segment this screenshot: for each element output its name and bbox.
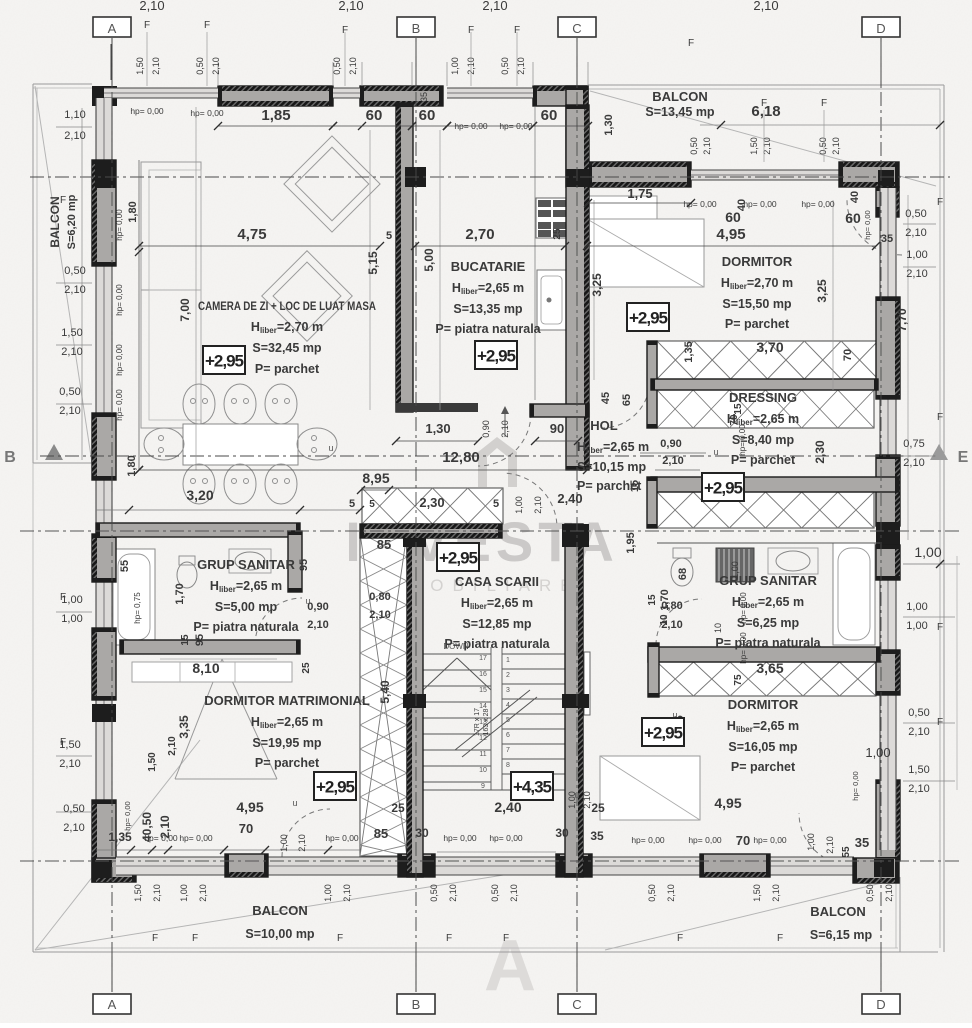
svg-text:1,50: 1,50 [908, 764, 929, 776]
svg-text:85: 85 [377, 537, 391, 552]
svg-text:40: 40 [849, 191, 861, 203]
axis horizontal y861 [20, 860, 960, 862]
svg-text:0,50: 0,50 [689, 137, 699, 155]
svg-text:2,10: 2,10 [906, 268, 927, 280]
axis D vertical [880, 42, 882, 992]
svg-text:2,10: 2,10 [307, 619, 328, 631]
kitchen stove [536, 198, 568, 238]
svg-text:35: 35 [855, 835, 869, 850]
column kitchen right [566, 169, 589, 187]
svg-text:2,70: 2,70 [465, 226, 494, 243]
svg-text:4,75: 4,75 [237, 226, 266, 243]
svg-text:1,80: 1,80 [126, 455, 138, 476]
dim row mid 1.30 90 [396, 440, 478, 442]
wall balcony corner right [839, 162, 899, 187]
dim lines above bottom wall [96, 849, 360, 851]
elev box dormitor matrimonial [314, 772, 356, 800]
svg-text:5,40: 5,40 [378, 680, 392, 704]
svg-text:0,50: 0,50 [429, 884, 439, 902]
window top-left band [104, 88, 218, 98]
svg-text:30: 30 [415, 826, 429, 840]
svg-text:2,10: 2,10 [533, 496, 543, 514]
svg-text:hp= 0,00: hp= 0,00 [631, 835, 665, 845]
svg-text:hp= 0,00: hp= 0,00 [115, 209, 124, 241]
svg-text:3,70: 3,70 [756, 339, 783, 355]
svg-text:0,50: 0,50 [490, 884, 500, 902]
svg-text:3: 3 [506, 687, 510, 694]
toilet grup sanitar right [671, 558, 693, 586]
svg-text:2,10: 2,10 [908, 726, 929, 738]
bottom wall chunk right [700, 854, 770, 877]
svg-text:S=8,40 mp: S=8,40 mp [732, 433, 795, 447]
left wall chunk 3 [92, 534, 116, 582]
grid marker C bottom [576, 952, 578, 992]
washbasin grup sanitar right [768, 548, 818, 574]
washbasin grup sanitar left [229, 549, 271, 573]
svg-text:60: 60 [845, 210, 861, 226]
right margin leader lines [903, 223, 936, 225]
svg-text:2,10: 2,10 [825, 836, 835, 854]
svg-text:S=12,85 mp: S=12,85 mp [462, 617, 532, 631]
svg-text:2: 2 [506, 672, 510, 679]
dim vertical line left interior [138, 160, 140, 470]
svg-text:1,95: 1,95 [625, 532, 637, 553]
svg-text:2,10: 2,10 [702, 137, 712, 155]
columns staircase left [403, 524, 426, 547]
staircase arrow [423, 658, 457, 690]
svg-text:0,50: 0,50 [332, 57, 342, 75]
svg-text:2,10: 2,10 [448, 884, 458, 902]
toilet grup sanitar left [177, 562, 197, 588]
wall stub hol left of kitchen wall [530, 404, 589, 417]
wall bath bottom [120, 640, 300, 654]
column right wall [876, 526, 900, 545]
left wall chunk 4 bath [92, 628, 116, 700]
svg-text:95: 95 [194, 634, 206, 646]
svg-text:10: 10 [479, 767, 487, 774]
svg-text:60: 60 [419, 107, 436, 124]
svg-text:hp= 0,00: hp= 0,00 [325, 833, 359, 843]
svg-text:2,10: 2,10 [211, 57, 221, 75]
svg-text:+4,35: +4,35 [513, 778, 552, 797]
svg-text:70: 70 [736, 833, 750, 848]
dim row 12.80 [139, 469, 587, 471]
svg-text:hp= 0,00: hp= 0,00 [130, 106, 164, 116]
svg-text:F: F [821, 98, 827, 109]
bathtub grup sanitar left [113, 549, 155, 645]
armchair diamond 2 [262, 251, 353, 342]
svg-text:P= parchet: P= parchet [255, 362, 320, 376]
closet dressing bottom [657, 390, 874, 428]
svg-text:hp= 0,00: hp= 0,00 [801, 199, 835, 209]
svg-text:CASA SCARII: CASA SCARII [455, 574, 539, 589]
right wall chunk 4 [876, 650, 900, 695]
svg-text:BUCATARIE: BUCATARIE [451, 259, 526, 274]
svg-text:hp= 0,00: hp= 0,00 [851, 771, 860, 800]
svg-text:11: 11 [479, 751, 486, 758]
svg-text:90: 90 [550, 421, 564, 436]
svg-text:+2,95: +2,95 [629, 309, 668, 328]
dining table [183, 424, 298, 465]
bottom wall chunk C [556, 854, 592, 877]
svg-text:1,50: 1,50 [752, 884, 762, 902]
svg-text:2,40: 2,40 [557, 491, 582, 506]
door arc dormitor matrimonial [282, 809, 330, 857]
svg-text:0,80: 0,80 [369, 591, 390, 603]
section triangle right [930, 444, 948, 460]
svg-text:+2,95: +2,95 [316, 778, 355, 797]
corner bottom right black [876, 780, 900, 861]
svg-text:2,10: 2,10 [342, 884, 352, 902]
wall living-bath separation [96, 523, 300, 537]
svg-text:2,10: 2,10 [198, 884, 208, 902]
svg-text:2,10: 2,10 [771, 884, 781, 902]
svg-text:F: F [337, 933, 343, 944]
grid marker D bottom [880, 952, 882, 992]
staircase break line [455, 690, 530, 750]
svg-text:4,95: 4,95 [236, 799, 263, 815]
svg-text:D: D [876, 21, 885, 36]
door arc balcony top right [847, 200, 902, 255]
svg-text:A: A [108, 997, 117, 1012]
svg-text:15: 15 [647, 594, 658, 606]
svg-text:B: B [4, 449, 16, 466]
svg-text:hp= 0,00: hp= 0,00 [115, 284, 124, 316]
svg-text:5: 5 [369, 499, 375, 510]
svg-text:P= parchet: P= parchet [255, 756, 320, 770]
svg-text:F: F [937, 622, 943, 633]
dim vertical line 7.00 living [195, 107, 197, 470]
svg-text:8: 8 [506, 762, 510, 769]
svg-text:3,25: 3,25 [590, 273, 604, 297]
extension lines above top wall [217, 62, 219, 86]
svg-text:P= parchet: P= parchet [577, 479, 642, 493]
columns staircase right [562, 524, 589, 547]
svg-text:u: u [328, 443, 333, 453]
svg-text:35: 35 [881, 233, 893, 245]
svg-text:2,10: 2,10 [762, 137, 772, 155]
wall right outer [880, 188, 896, 850]
svg-text:hp= 0,00: hp= 0,00 [443, 833, 477, 843]
svg-text:B: B [412, 21, 421, 36]
svg-text:DORMITOR: DORMITOR [722, 254, 793, 269]
svg-text:hp= 0,00: hp= 0,00 [743, 199, 777, 209]
svg-text:0,90: 0,90 [660, 438, 681, 450]
svg-text:0,50: 0,50 [647, 884, 657, 902]
wall bath2 left vertical [648, 643, 659, 697]
svg-text:0,50: 0,50 [63, 803, 84, 815]
svg-text:60: 60 [541, 107, 558, 124]
svg-text:hp= 0,00: hp= 0,00 [489, 833, 523, 843]
svg-text:hp= 0,00: hp= 0,00 [179, 833, 213, 843]
svg-text:2,10: 2,10 [905, 227, 926, 239]
svg-text:2,10: 2,10 [63, 822, 84, 834]
svg-text:hp= 0,00: hp= 0,00 [454, 121, 488, 131]
svg-text:S=5,00 mp: S=5,00 mp [215, 600, 278, 614]
svg-text:+2,95: +2,95 [704, 479, 743, 498]
svg-text:F: F [204, 20, 210, 31]
wall dressing mid [651, 379, 878, 390]
svg-text:1,00: 1,00 [906, 620, 927, 632]
svg-text:2,10: 2,10 [884, 884, 894, 902]
svg-text:17R x 17: 17R x 17 [474, 708, 481, 736]
wall bath2 bottom [648, 647, 880, 662]
svg-text:0,90: 0,90 [481, 420, 491, 438]
dresser dormitor matrimonial [132, 662, 292, 682]
svg-text:8,10: 8,10 [192, 660, 219, 676]
svg-text:hp= 0,00: hp= 0,00 [190, 108, 224, 118]
svg-text:70: 70 [842, 349, 854, 361]
axis B vertical [415, 42, 417, 992]
window balcony top right [691, 170, 840, 180]
svg-text:5: 5 [349, 498, 355, 510]
svg-text:1,70: 1,70 [174, 583, 186, 604]
bottom wall chunk B [398, 854, 435, 877]
axis horizontal y531 [20, 530, 960, 532]
svg-text:BALCON: BALCON [810, 904, 866, 919]
balcony bottom outline [32, 463, 34, 860]
elev box casa scarii [437, 543, 479, 571]
svg-text:F: F [60, 737, 66, 748]
svg-text:1,30: 1,30 [425, 421, 450, 436]
svg-text:2,10: 2,10 [753, 0, 778, 13]
svg-text:4: 4 [506, 702, 510, 709]
bed dormitor top right [587, 219, 704, 287]
svg-text:P= piatra naturala: P= piatra naturala [435, 322, 541, 336]
svg-text:2,10: 2,10 [338, 0, 363, 13]
right wall chunk 3 [876, 545, 900, 580]
svg-text:1,10: 1,10 [64, 109, 85, 121]
bed dormitor matrimonial triangle [175, 659, 222, 779]
svg-text:D: D [876, 997, 885, 1012]
sofa living [141, 162, 201, 290]
svg-text:1,35: 1,35 [683, 341, 695, 362]
svg-text:F: F [777, 933, 783, 944]
svg-text:+2,95: +2,95 [205, 352, 244, 371]
svg-text:2,10: 2,10 [139, 0, 164, 13]
balcony left diagonal [35, 86, 92, 463]
roof outline diagonal top right balcony [590, 91, 936, 186]
svg-text:F: F [152, 933, 158, 944]
svg-text:75: 75 [733, 674, 744, 686]
door arc grup sanitar left [255, 598, 302, 645]
svg-text:u: u [305, 596, 310, 606]
svg-text:16: 16 [479, 671, 487, 678]
window top band 3 [447, 88, 533, 98]
closet bedroom right 3.65 [657, 662, 876, 696]
svg-text:60: 60 [366, 107, 383, 124]
axis A vertical [111, 42, 113, 992]
svg-text:1,50: 1,50 [147, 752, 158, 772]
svg-text:BALCON: BALCON [652, 89, 708, 104]
right wall chunk 2 [876, 455, 900, 526]
svg-text:2,10: 2,10 [59, 758, 80, 770]
svg-text:hp= 0,00: hp= 0,00 [683, 199, 717, 209]
svg-text:0,50: 0,50 [59, 386, 80, 398]
svg-text:2,10: 2,10 [908, 783, 929, 795]
svg-text:0,75: 0,75 [903, 438, 924, 450]
svg-text:S=16,05 mp: S=16,05 mp [728, 740, 798, 754]
svg-text:2,10: 2,10 [903, 457, 924, 469]
svg-text:35: 35 [590, 829, 604, 843]
svg-text:u: u [292, 798, 297, 808]
grid marker C top [576, 38, 578, 86]
svg-text:1,75: 1,75 [627, 186, 652, 201]
svg-text:2,10: 2,10 [152, 884, 162, 902]
svg-text:25: 25 [591, 801, 605, 815]
svg-text:0,50: 0,50 [195, 57, 205, 75]
dining chairs [183, 384, 215, 424]
svg-text:P= parchet: P= parchet [731, 453, 796, 467]
svg-text:S=19,95 mp: S=19,95 mp [252, 736, 322, 750]
dim top row 1.85 [218, 125, 333, 127]
axis overlay vertical lines [111, 42, 113, 992]
wall staircase left [407, 524, 423, 877]
svg-text:F: F [192, 933, 198, 944]
wall staircase top [360, 524, 502, 538]
door arc hol stairs [507, 473, 557, 523]
wall hol-dressing bottom [651, 477, 899, 492]
grid marker B bottom [415, 952, 417, 992]
svg-text:S=15,50 mp: S=15,50 mp [722, 297, 792, 311]
svg-text:0,50: 0,50 [64, 265, 85, 277]
svg-text:BALCON: BALCON [252, 903, 308, 918]
dim row 4.75 2.70 4.95 [139, 245, 380, 247]
svg-text:1,00: 1,00 [906, 249, 927, 261]
svg-text:hp= 0,00: hp= 0,00 [499, 121, 533, 131]
svg-text:hp= 0,75: hp= 0,75 [133, 592, 142, 624]
svg-text:7: 7 [506, 747, 510, 754]
svg-text:P= parchet: P= parchet [731, 760, 796, 774]
roof outline top right [588, 84, 944, 86]
svg-text:S=6,20 mp: S=6,20 mp [66, 194, 78, 249]
section triangle left [45, 444, 63, 460]
elev box hol [702, 473, 744, 501]
svg-text:hp= 0,00: hp= 0,00 [688, 835, 722, 845]
svg-text:A: A [484, 926, 536, 1006]
left wall chunk 5 [92, 800, 116, 882]
svg-text:F: F [937, 412, 943, 423]
svg-text:0,50: 0,50 [500, 57, 510, 75]
svg-text:4,95: 4,95 [716, 226, 745, 243]
svg-text:1,00: 1,00 [179, 884, 189, 902]
svg-text:S=6,15 mp: S=6,15 mp [810, 928, 873, 942]
svg-text:70: 70 [239, 821, 253, 836]
svg-text:1,00: 1,00 [514, 496, 524, 514]
svg-text:1,00: 1,00 [323, 884, 333, 902]
svg-text:1,30: 1,30 [603, 114, 615, 135]
axis C vertical [576, 42, 578, 992]
svg-text:15: 15 [180, 634, 191, 646]
elev box dormitor bottom right [642, 718, 684, 746]
svg-text:0,50: 0,50 [905, 208, 926, 220]
svg-text:4,95: 4,95 [714, 795, 741, 811]
svg-text:2,10: 2,10 [662, 455, 683, 467]
svg-text:2,30: 2,30 [419, 495, 444, 510]
svg-text:hp= 0,00: hp= 0,00 [753, 835, 787, 845]
svg-text:1,35: 1,35 [108, 830, 132, 844]
svg-text:hp= 0,00: hp= 0,00 [115, 389, 124, 421]
svg-text:2,10: 2,10 [831, 137, 841, 155]
kitchen counter line [534, 107, 536, 400]
svg-text:S=10,15 mp: S=10,15 mp [577, 460, 647, 474]
svg-text:S=32,45 mp: S=32,45 mp [252, 341, 322, 355]
svg-text:2,10: 2,10 [369, 609, 390, 621]
wall dressing left vertical 2 [647, 477, 657, 528]
svg-text:+2,95: +2,95 [644, 724, 683, 743]
svg-text:S=13,45 mp: S=13,45 mp [645, 105, 715, 119]
svg-text:5: 5 [493, 498, 499, 510]
svg-text:3,35: 3,35 [177, 715, 191, 739]
elev box +4.35 [511, 772, 553, 800]
svg-text:65: 65 [621, 394, 633, 406]
svg-text:8,95: 8,95 [362, 470, 389, 486]
dim row 8.95 [361, 489, 389, 491]
svg-text:u: u [574, 790, 579, 800]
svg-text:1,00: 1,00 [279, 834, 289, 852]
staircase treads left flight [423, 653, 491, 655]
svg-text:F: F [761, 98, 767, 109]
svg-text:1,50: 1,50 [135, 57, 145, 75]
svg-text:1,00: 1,00 [865, 745, 890, 760]
staircase handrail [584, 652, 590, 715]
wall kitchen right vertical [566, 105, 589, 470]
svg-text:55: 55 [119, 560, 131, 572]
left wall chunk 2 [92, 413, 116, 480]
svg-text:F: F [937, 197, 943, 208]
wall bottom outer [116, 857, 854, 875]
svg-text:17: 17 [479, 655, 487, 662]
svg-text:1,00: 1,00 [806, 833, 816, 851]
wall staircase right [565, 524, 583, 877]
door arc hol-dormitor right [602, 380, 650, 428]
wall top T2 [360, 86, 443, 106]
svg-text:12,80: 12,80 [442, 449, 480, 466]
left margin leader lines [56, 126, 92, 128]
svg-text:60: 60 [725, 209, 741, 225]
svg-text:2,10: 2,10 [509, 884, 519, 902]
thin line bath2 top [657, 542, 880, 544]
svg-text:+2,95: +2,95 [439, 549, 478, 568]
svg-text:7,70: 7,70 [895, 308, 909, 332]
svg-text:5: 5 [386, 230, 392, 242]
bathtub grup sanitar right [833, 543, 875, 645]
svg-text:1,50: 1,50 [749, 137, 759, 155]
svg-text:0,50: 0,50 [865, 884, 875, 902]
svg-text:F: F [446, 933, 452, 944]
right wall chunk 1 [876, 297, 900, 399]
svg-text:A: A [108, 21, 117, 36]
left wall chunk 1 [92, 160, 116, 266]
svg-text:163 x 28: 163 x 28 [483, 708, 490, 735]
svg-text:3,20: 3,20 [186, 487, 213, 503]
wall dressing left vertical [647, 341, 657, 428]
svg-text:2,10: 2,10 [64, 130, 85, 142]
svg-text:1,00: 1,00 [61, 613, 82, 625]
svg-text:P= piatra naturala: P= piatra naturala [715, 636, 821, 650]
svg-text:2,30: 2,30 [813, 440, 827, 464]
svg-text:30: 30 [555, 826, 569, 840]
svg-text:F: F [60, 195, 66, 206]
door arc dormitor bottom right [799, 813, 851, 865]
svg-text:F: F [60, 592, 66, 603]
svg-text:hp= 0,00: hp= 0,00 [123, 801, 132, 830]
svg-text:1,50: 1,50 [61, 327, 82, 339]
svg-text:6: 6 [506, 732, 510, 739]
svg-text:3,25: 3,25 [815, 279, 829, 303]
svg-text:85: 85 [374, 826, 388, 841]
elev box camera de zi [203, 346, 245, 374]
